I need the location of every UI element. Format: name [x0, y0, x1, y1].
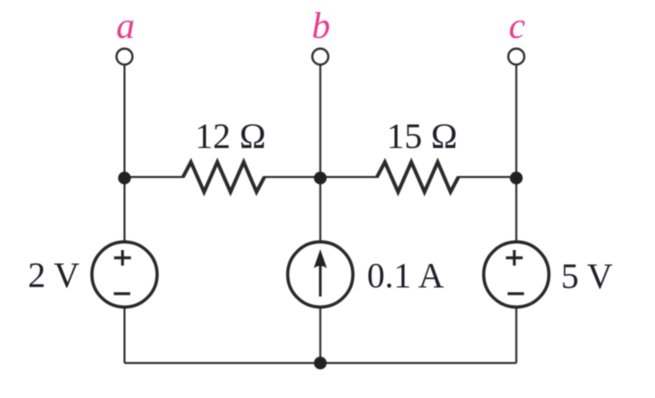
svg-text:b: b	[312, 6, 331, 47]
svg-text:c: c	[509, 6, 526, 47]
svg-text:2 V: 2 V	[28, 255, 80, 295]
svg-text:5 V: 5 V	[561, 256, 613, 296]
svg-text:a: a	[116, 6, 135, 47]
svg-text:12 Ω: 12 Ω	[195, 116, 266, 156]
svg-text:15 Ω: 15 Ω	[387, 116, 458, 156]
svg-text:0.1 A: 0.1 A	[367, 256, 444, 296]
